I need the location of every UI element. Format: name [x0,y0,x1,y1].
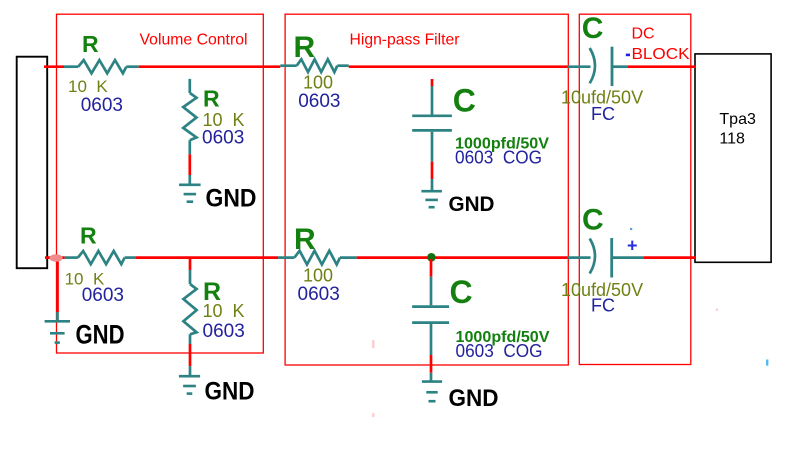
capacitor C2 plate 2 [412,321,449,324]
svg-text:0603: 0603 [203,321,245,342]
wire teal stub above GND bottom-left [56,312,59,321]
capacitor C3 DC-block top curved plate [590,48,595,83]
label -BLOCK dash [626,54,630,57]
resistor R6 100 highpass-bottom [278,256,294,259]
capacitor C2 red lead from junction [430,259,433,277]
svg-text:0603 COG: 0603 COG [456,341,543,361]
resistor R1 10K top-left [64,65,78,68]
svg-text:GND: GND [206,185,257,213]
svg-text:GND: GND [205,378,255,406]
wire teal into C4 [568,256,591,259]
svg-text:C: C [582,12,604,45]
ground under R2 [179,184,201,187]
artifact pink dot right [716,309,718,311]
svg-text:0603: 0603 [298,284,340,305]
svg-text:R: R [294,31,316,64]
svg-text:0603: 0603 [82,285,124,306]
svg-text:R: R [294,223,316,256]
capacitor C2 bottom lead [430,324,433,355]
svg-text:C: C [450,274,473,310]
capacitor C3 output lead [612,65,628,68]
junction blob at connector [49,254,62,261]
resistor R5 10K shunt red stub [189,259,192,270]
svg-text:0603: 0603 [81,95,123,116]
svg-text:GND: GND [76,320,125,350]
svg-text:100: 100 [303,265,333,285]
svg-text:R: R [82,31,99,57]
wire red segment on C2 lead [430,355,433,373]
wire teal segment above GND C2 [430,373,433,381]
capacitor C1 red stub from wire [431,79,434,86]
wire bottom right of R6 [357,256,568,259]
DC block section box [579,14,691,364]
capacitor C4 output lead [612,256,644,259]
wire bottom to amplifier [644,256,696,259]
svg-text:0603: 0603 [202,128,244,149]
svg-text:C: C [453,83,476,119]
svg-text:C: C [582,204,604,237]
svg-text:10 K: 10 K [203,301,245,321]
input connector J1 [17,57,48,269]
wire teal segment above GND R2 [188,175,191,184]
ground at connector [45,320,70,323]
capacitor C1 plate 2 [412,129,452,132]
wire bottom middle [136,256,278,259]
wire red to ground bottom-left [56,258,59,312]
wire top right of R3 [349,65,568,68]
wire top to amplifier [628,65,696,68]
artifact pink dash upper [372,340,374,348]
wire red segment on R2 lead [188,154,191,175]
wire red segment on R5 lead [189,344,192,366]
wire top middle [139,65,281,68]
svg-text:FC: FC [591,295,615,315]
svg-text:118: 118 [719,131,745,148]
resistor R2 10K shunt [188,79,191,93]
capacitor C1 top lead [431,86,434,115]
node junction dot [427,253,436,262]
svg-text:Hign-pass Filter: Hign-pass Filter [350,31,461,48]
artifact blue dot near C4 [630,228,632,230]
capacitor C4 flat plate [610,238,613,278]
resistor R5 leads+zigzag [189,270,192,284]
svg-text:10 K: 10 K [68,77,108,96]
svg-text:DC: DC [632,25,655,42]
svg-text:GND: GND [449,385,499,412]
wire bottom-left from connector [45,256,65,259]
resistor R4 10K bottom [65,256,78,259]
resistor R3 100 highpass-top [280,64,296,67]
wire teal segment above GND C1 [431,179,434,191]
Volume Control section box [57,14,264,353]
artifact pink dash lower [372,413,374,417]
capacitor C1 bottom lead [431,132,434,162]
wire red segment on C1 lead [431,162,434,179]
wire teal segment above GND R5 [189,366,192,376]
capacitor C2 plate 1 [412,305,449,308]
amplifier U1 Tpa3118 box [695,54,771,262]
ground under R5 [179,375,200,378]
svg-text:FC: FC [591,104,615,124]
svg-text:0603 COG: 0603 COG [455,147,542,167]
capacitor C3 flat plate [611,47,614,86]
artifact blue dash right [766,360,768,366]
svg-text:R: R [80,223,97,249]
ground under C2 [422,380,442,383]
capacitor C4 DC-block bottom curved plate [590,239,595,274]
High-pass Filter section box [285,14,568,365]
wire teal into C3 [568,65,591,68]
svg-text:100: 100 [303,72,333,92]
wire top-left from connector [44,65,64,68]
svg-text:0603: 0603 [298,91,340,112]
capacitor C2 top lead [430,277,433,306]
svg-text:Tpa3: Tpa3 [719,111,756,128]
ground under C1 [421,190,442,193]
svg-text:+: + [627,236,638,256]
svg-text:BLOCK: BLOCK [632,46,690,63]
capacitor C1 plate 1 [412,114,452,117]
svg-text:GND: GND [449,192,495,216]
svg-text:R: R [203,86,220,112]
svg-text:Volume Control: Volume Control [140,32,248,49]
